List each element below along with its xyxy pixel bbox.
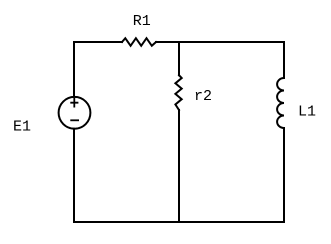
resistor R1 (122, 38, 156, 46)
minus sign (71, 119, 78, 121)
wire top right segment (156, 41, 284, 43)
inductor L1 (277, 78, 284, 128)
plus sign (71, 99, 77, 107)
wire middle bottom (178, 110, 180, 222)
wire bottom (74, 221, 284, 223)
wire left bottom (73, 129, 75, 222)
svg-text:E1: E1 (13, 119, 31, 136)
wire right bottom (283, 128, 285, 222)
wire middle top (178, 42, 180, 75)
wire top left segment (74, 41, 122, 43)
wire left top (73, 42, 75, 97)
svg-text:R1: R1 (133, 13, 151, 30)
svg-text:L1: L1 (298, 104, 316, 121)
svg-text:r2: r2 (194, 88, 212, 105)
resistor r2 (175, 75, 181, 110)
voltage source E1 (59, 97, 91, 129)
wire right top (283, 42, 285, 78)
